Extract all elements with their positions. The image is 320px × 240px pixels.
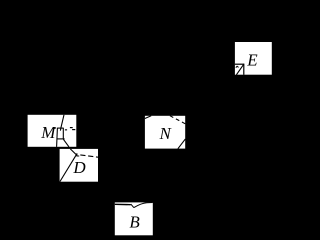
svg-text:N: N [159, 124, 173, 143]
svg-text:E: E [246, 50, 258, 69]
svg-text:B: B [129, 212, 140, 231]
svg-text:M: M [40, 123, 56, 142]
svg-text:D: D [72, 158, 86, 177]
